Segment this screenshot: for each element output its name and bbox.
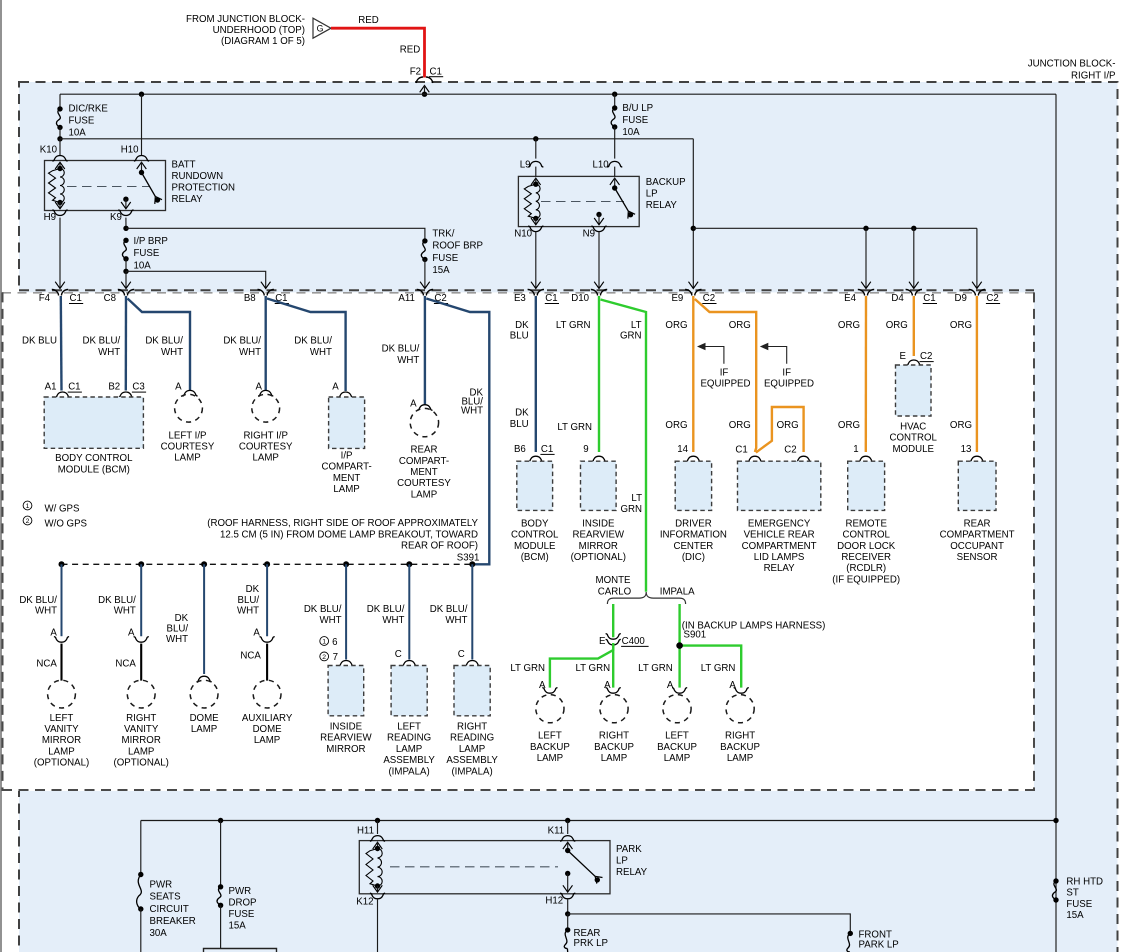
wire N10 down to E3 (535, 232, 537, 288)
wire NCA right vanity (140, 644, 142, 681)
junction dot H12 branch (565, 911, 570, 916)
junction dot bottom bus / pwr drop fuse (218, 818, 223, 823)
svg-text:14: 14 (677, 444, 688, 455)
svg-text:BLU/: BLU/ (167, 624, 189, 635)
wire ORG E9 branch to emergency relay C1 (695, 299, 756, 452)
relay internal dashed line (67, 186, 150, 188)
wire DK BLU E3 to BCM B6 (535, 296, 537, 452)
svg-text:BODY: BODY (521, 518, 549, 529)
svg-text:G: G (317, 24, 324, 34)
svg-text:DOME: DOME (253, 724, 283, 735)
svg-text:I/P: I/P (341, 450, 353, 461)
svg-text:RED: RED (400, 44, 420, 55)
fuse PWR DROP 15A (218, 884, 223, 889)
svg-text:RIGHT: RIGHT (725, 731, 755, 742)
svg-text:DOME: DOME (190, 713, 220, 724)
svg-text:S901: S901 (684, 630, 707, 641)
svg-text:BLU: BLU (510, 419, 529, 430)
junction dot bottom bus / RH HTD ST drop (1053, 818, 1058, 823)
svg-text:WHT: WHT (445, 615, 467, 626)
svg-text:DRIVER: DRIVER (675, 518, 712, 529)
connector D9 at junction block border (969, 289, 985, 295)
svg-text:INFORMATION: INFORMATION (660, 530, 727, 541)
connector E3 at junction block border (528, 289, 544, 295)
svg-text:WHT: WHT (161, 347, 183, 358)
wire LT GRN impala leg to S901 (678, 604, 680, 646)
svg-text:RELAY: RELAY (616, 867, 648, 878)
svg-text:C400: C400 (622, 636, 646, 647)
pin arc left reading lamp (402, 660, 417, 666)
splice junction dot x=409.3 (406, 561, 412, 567)
svg-text:LAMP: LAMP (537, 753, 563, 764)
inside rearview mirror box (328, 666, 364, 716)
svg-text:CARLO: CARLO (598, 586, 632, 597)
dome lamp (190, 680, 218, 708)
svg-text:BATT: BATT (172, 159, 196, 170)
svg-text:OCCUPANT: OCCUPANT (950, 541, 1004, 552)
svg-text:MIRROR: MIRROR (42, 735, 81, 746)
splice junction dot x=141.2 (138, 561, 144, 567)
svg-text:MIRROR: MIRROR (122, 735, 161, 746)
svg-text:C2: C2 (784, 444, 796, 455)
junction dot I/P fuse / B8 branch (123, 269, 128, 274)
svg-text:(BCM): (BCM) (521, 552, 549, 563)
wire ORG jumper C1 to C2 (756, 407, 804, 453)
svg-text:WHT: WHT (397, 355, 419, 366)
wire LT GRN below C400 to right backup lamp (612, 643, 614, 688)
svg-text:E4: E4 (844, 293, 856, 304)
svg-text:6: 6 (332, 637, 337, 648)
wire LT GRN S901 to right backup lamp (impala) (680, 646, 742, 688)
svg-text:LEFT: LEFT (50, 713, 74, 724)
svg-text:C1: C1 (68, 382, 80, 393)
svg-text:1: 1 (26, 503, 30, 510)
svg-text:WHT: WHT (114, 605, 136, 616)
pin arc backup lamp 3 (672, 688, 687, 694)
wire REAR PRK LP down (567, 914, 569, 930)
junction dot DIC fuse / bus2 (57, 136, 62, 141)
svg-text:IMPALA: IMPALA (660, 586, 695, 597)
white box left dashed border (2, 292, 4, 791)
wire H9 down to F4 (59, 218, 61, 288)
svg-text:REARVIEW: REARVIEW (573, 530, 625, 541)
svg-text:PWR: PWR (229, 886, 252, 897)
svg-text:REMOTE: REMOTE (845, 518, 887, 529)
wire ORG E9 to DIC pin 14 (692, 296, 694, 452)
fuse RH HTD ST 15A (1053, 878, 1058, 883)
park relay coil H11-K12 (373, 842, 383, 849)
svg-text:D9: D9 (955, 293, 967, 304)
svg-text:COURTESY: COURTESY (239, 442, 293, 453)
wire C8 down (125, 271, 127, 287)
wire K9 down to junction (125, 218, 127, 229)
svg-text:BACKUP: BACKUP (646, 177, 686, 188)
svg-text:MIRROR: MIRROR (579, 541, 618, 552)
svg-text:ORG: ORG (729, 320, 751, 331)
pin K11 connector arc (560, 836, 575, 842)
pin H12 connector arc (560, 893, 575, 899)
svg-text:N10: N10 (514, 228, 532, 239)
svg-text:ORG: ORG (729, 420, 751, 431)
off-page triangle connector G (313, 18, 331, 38)
junction dot bottom bus / K11 (565, 818, 570, 823)
right i/p courtesy lamp (252, 394, 280, 422)
pin arc backup lamp 1 (542, 688, 557, 694)
svg-text:C1: C1 (541, 444, 553, 455)
connector D4 at junction block border (906, 289, 922, 295)
svg-text:BACKUP: BACKUP (594, 742, 634, 753)
connector F2/C1 at junction block top border (416, 77, 432, 83)
svg-text:ORG: ORG (665, 320, 687, 331)
wire L9 from bus2 down (535, 139, 537, 159)
svg-text:RELAY: RELAY (646, 200, 678, 211)
svg-text:WHT: WHT (237, 605, 259, 616)
wire DK BLU F4 to BCM A1 (60, 296, 63, 391)
svg-text:W/O GPS: W/O GPS (45, 518, 88, 529)
relay pin K9 with arrow (123, 197, 128, 202)
svg-text:LAMP: LAMP (253, 453, 279, 464)
svg-text:L9: L9 (520, 159, 531, 170)
svg-text:DK: DK (246, 584, 260, 595)
right backup lamp 4 (726, 695, 754, 723)
svg-text:EQUIPPED: EQUIPPED (764, 378, 814, 389)
pin arc backup lamp 2 (606, 688, 621, 694)
driver information center (DIC) box (675, 461, 711, 510)
svg-text:GRN: GRN (620, 331, 642, 342)
pin arc right vanity lamp (134, 637, 149, 643)
svg-text:B/U LP: B/U LP (622, 103, 653, 114)
bottom bus wire (141, 820, 1056, 822)
svg-text:LAMP: LAMP (601, 753, 627, 764)
connector D10 at junction block border (591, 289, 607, 295)
right vanity mirror lamp (127, 680, 155, 708)
svg-text:NCA: NCA (115, 659, 136, 670)
pin arc backup lamp 4 (734, 688, 749, 694)
body control module (BCM) box right (517, 461, 553, 510)
svg-text:EQUIPPED: EQUIPPED (700, 378, 750, 389)
connector C400 inline (606, 634, 621, 640)
splice junction dot x=61.5 (59, 561, 65, 567)
svg-text:HVAC: HVAC (900, 421, 926, 432)
svg-text:FUSE: FUSE (134, 248, 160, 259)
svg-text:RIGHT: RIGHT (599, 731, 629, 742)
svg-text:K12: K12 (356, 896, 373, 907)
arrow up into junction block at F2 (420, 86, 430, 93)
svg-text:A: A (50, 628, 57, 639)
svg-text:ORG: ORG (838, 320, 860, 331)
svg-text:READING: READING (450, 733, 494, 744)
svg-text:LAMP: LAMP (48, 746, 74, 757)
svg-text:(OPTIONAL): (OPTIONAL) (571, 552, 626, 563)
svg-text:SENSOR: SENSOR (957, 552, 998, 563)
emergency vehicle rear compartment lid lamps relay box (738, 461, 821, 510)
svg-text:LT GRN: LT GRN (510, 663, 545, 674)
svg-text:NCA: NCA (240, 651, 261, 662)
junction dot bottom bus / H11 (375, 818, 380, 823)
wire branch to front park lp (568, 914, 851, 934)
svg-text:MENT: MENT (333, 473, 361, 484)
svg-text:FUSE: FUSE (1066, 899, 1092, 910)
pin A1 connector arc (55, 392, 70, 398)
svg-text:COMPART-: COMPART- (399, 456, 449, 467)
park relay pin H12 with arrow (565, 871, 570, 876)
arrow into E3 (531, 282, 541, 289)
wire DK BLU/WHT C8 to BCM B2 (125, 296, 128, 391)
svg-text:VEHICLE REAR: VEHICLE REAR (744, 530, 815, 541)
svg-text:RIGHT I/P: RIGHT I/P (1071, 70, 1116, 81)
pin C2 connector arc (796, 456, 811, 462)
wire N9 down to D10 (598, 232, 600, 288)
wire DK BLU/WHT to auxiliary dome lamp (266, 564, 268, 636)
svg-text:15A: 15A (432, 265, 450, 276)
svg-text:COURTESY: COURTESY (397, 478, 451, 489)
pin 9 connector arc (591, 456, 606, 462)
if equipped callout 1 (697, 343, 706, 350)
svg-text:D4: D4 (891, 293, 904, 304)
arrow into C8 (121, 282, 131, 289)
backup relay internal dashed line (541, 201, 624, 203)
pin K10 connector arc (52, 155, 67, 161)
backup lp relay box (518, 176, 639, 226)
svg-text:LAMP: LAMP (459, 744, 485, 755)
circuit breaker PWR SEATS 30A (138, 872, 143, 877)
svg-text:FROM JUNCTION BLOCK-: FROM JUNCTION BLOCK- (186, 14, 305, 25)
svg-text:BACKUP: BACKUP (657, 742, 697, 753)
svg-text:(OPTIONAL): (OPTIONAL) (34, 758, 89, 769)
svg-text:BACKUP: BACKUP (530, 742, 570, 753)
splice junction dot x=204.1 (201, 561, 207, 567)
svg-text:2: 2 (322, 654, 326, 661)
svg-text:LAMP: LAMP (411, 489, 437, 500)
svg-text:ORG: ORG (838, 420, 860, 431)
svg-text:(IMPALA): (IMPALA) (388, 766, 429, 777)
wire LT GRN monte carlo leg to C400 (612, 604, 614, 637)
backup relay coil L9-N10 (531, 178, 541, 185)
arrow into D10 (594, 282, 604, 289)
wire K12 down (377, 900, 379, 952)
svg-text:INSIDE: INSIDE (582, 518, 615, 529)
rear compartment courtesy lamp (410, 408, 438, 436)
white interior cut-out box (2, 292, 1034, 791)
svg-text:ORG: ORG (777, 420, 799, 431)
svg-text:REAR: REAR (964, 518, 991, 529)
svg-text:K10: K10 (40, 145, 58, 156)
if equipped callout 2 (760, 343, 769, 350)
arrow into D4 (909, 282, 919, 289)
svg-text:A: A (256, 382, 263, 393)
left reading lamp assembly box (391, 666, 427, 716)
rear compartment occupant sensor box (958, 461, 996, 510)
wire K10 from bus2 junction down (59, 139, 61, 155)
pin 1 connector arc (858, 456, 873, 462)
pin arc i/p compartment lamp (338, 392, 353, 398)
wire LT GRN S901 down to left backup lamp (impala) (678, 646, 680, 688)
svg-text:LP: LP (616, 855, 628, 866)
arrow into D9 (972, 282, 982, 289)
svg-text:BODY CONTROL: BODY CONTROL (55, 453, 133, 464)
wire LT GRN D10 branch down to monte/impala split (601, 300, 647, 592)
svg-text:H10: H10 (121, 145, 139, 156)
partial component box at bottom edge (204, 949, 277, 952)
wire RED from G to F2/C1 (331, 28, 425, 77)
white box top dashed border (light) (2, 292, 1034, 294)
svg-text:COMPARTMENT: COMPARTMENT (742, 541, 817, 552)
fuse B/U LP 10A drop from top bus (612, 92, 617, 97)
park relay internal dashed line (390, 866, 558, 868)
svg-text:UNDERHOOD (TOP): UNDERHOOD (TOP) (213, 25, 305, 36)
svg-text:BLU/: BLU/ (238, 595, 260, 606)
svg-text:COMPARTMENT: COMPARTMENT (940, 530, 1015, 541)
svg-text:TRK/: TRK/ (432, 228, 454, 239)
left i/p courtesy lamp (175, 394, 203, 422)
wire LT GRN D10 to inside rearview mirror (598, 296, 600, 452)
svg-text:(DIC): (DIC) (682, 552, 705, 563)
svg-text:C8: C8 (104, 293, 116, 304)
svg-text:FUSE: FUSE (432, 253, 458, 264)
svg-text:DK BLU/: DK BLU/ (304, 604, 342, 615)
svg-text:I/P BRP: I/P BRP (134, 236, 168, 247)
svg-text:DK BLU/: DK BLU/ (430, 604, 468, 615)
svg-text:LAMP: LAMP (396, 744, 422, 755)
wire branch to B8 (126, 271, 266, 287)
svg-text:DK BLU/: DK BLU/ (145, 335, 183, 346)
junction dot S901 (676, 642, 683, 649)
svg-text:C: C (458, 649, 465, 660)
pin K12 connector arc (370, 893, 385, 899)
right reading lamp assembly box (454, 666, 490, 716)
svg-text:RIGHT: RIGHT (457, 722, 487, 733)
svg-text:13: 13 (961, 444, 972, 455)
pin arc right reading lamp (465, 660, 480, 666)
left backup lamp 3 (663, 695, 691, 723)
junction dot bus4/E4 (863, 226, 868, 231)
wire H11 drop (377, 821, 379, 835)
svg-text:S391: S391 (457, 553, 480, 564)
pin B2 connector arc (118, 392, 133, 398)
svg-text:PARK: PARK (616, 844, 642, 855)
pin 14 connector arc (686, 456, 701, 462)
svg-text:K9: K9 (110, 212, 122, 223)
pin H11 connector arc (370, 836, 385, 842)
svg-text:LAMP: LAMP (727, 753, 753, 764)
relay switch H10 side (137, 162, 147, 169)
svg-text:N9: N9 (583, 228, 595, 239)
right backup lamp 2 (600, 695, 628, 723)
svg-text:(IF EQUIPPED): (IF EQUIPPED) (832, 574, 900, 585)
svg-text:VANITY: VANITY (124, 724, 159, 735)
svg-text:REAR OF ROOF): REAR OF ROOF) (401, 541, 478, 552)
svg-text:DK BLU/: DK BLU/ (367, 604, 405, 615)
wire from top bus down to DIC/RKE fuse (59, 94, 61, 109)
white box bottom dashed border (2, 789, 1034, 791)
pin B6 connector arc (528, 456, 543, 462)
svg-text:DK: DK (175, 613, 189, 624)
svg-text:RIGHT: RIGHT (126, 713, 156, 724)
svg-text:ROOF BRP: ROOF BRP (432, 241, 483, 252)
svg-text:LT GRN: LT GRN (575, 663, 610, 674)
svg-text:D10: D10 (571, 293, 589, 304)
pin N10 connector arc (528, 226, 543, 232)
arrow into E9 (689, 282, 699, 289)
svg-text:SEATS: SEATS (150, 892, 182, 903)
wire ORG E4 to RCDLR pin 1 (865, 296, 868, 452)
svg-text:RIGHT I/P: RIGHT I/P (243, 431, 288, 442)
fuse TRK/ROOF BRP 15A (422, 238, 427, 243)
svg-text:COURTESY: COURTESY (161, 442, 215, 453)
svg-text:MODULE: MODULE (892, 444, 934, 455)
pin L10 connector arc (607, 161, 622, 167)
junction dot bus2/L9 branch (533, 136, 538, 141)
wire DK BLU/WHT to dome lamp (203, 564, 205, 674)
svg-text:VANITY: VANITY (44, 724, 79, 735)
svg-text:E9: E9 (671, 293, 683, 304)
pin H10 connector arc (134, 155, 149, 161)
pin arc left vanity lamp (54, 637, 69, 643)
svg-text:MIRROR: MIRROR (326, 744, 365, 755)
svg-text:DIC/RKE: DIC/RKE (69, 103, 109, 114)
svg-text:MONTE: MONTE (596, 575, 632, 586)
svg-text:LAMP: LAMP (333, 484, 359, 495)
svg-text:C2: C2 (920, 351, 932, 362)
svg-text:E: E (900, 351, 907, 362)
svg-text:FUSE: FUSE (69, 115, 95, 126)
wire DK BLU/WHT A11 branch down to S391 (426, 299, 489, 565)
svg-text:RELAY: RELAY (764, 563, 796, 574)
svg-text:K11: K11 (548, 826, 565, 837)
wire DK BLU/WHT to left vanity mirror lamp (61, 564, 63, 636)
svg-text:(OPTIONAL): (OPTIONAL) (113, 758, 168, 769)
wire fuse to B8-branch junction (125, 259, 127, 272)
wire below pwr drop fuse (220, 905, 222, 948)
svg-text:RUNDOWN: RUNDOWN (172, 171, 224, 182)
wire DK BLU/WHT to left reading lamp (408, 564, 410, 659)
svg-text:BACKUP: BACKUP (720, 742, 760, 753)
connector E9 at junction block border (685, 289, 701, 295)
svg-text:ASSEMBLY: ASSEMBLY (446, 755, 498, 766)
legend W/O GPS (23, 516, 32, 525)
svg-text:WHT: WHT (239, 347, 261, 358)
wire D4 drop (913, 228, 915, 287)
svg-text:10A: 10A (134, 260, 152, 271)
svg-text:INSIDE: INSIDE (330, 722, 363, 733)
svg-text:DK BLU/: DK BLU/ (294, 335, 332, 346)
svg-text:LAMP: LAMP (664, 753, 690, 764)
svg-text:(RCDLR): (RCDLR) (846, 563, 886, 574)
svg-text:C1: C1 (735, 444, 747, 455)
svg-text:LEFT: LEFT (665, 731, 689, 742)
label pin 7 w/o gps (320, 652, 329, 661)
svg-text:A: A (332, 382, 339, 393)
svg-text:(ROOF HARNESS, RIGHT SIDE OF R: (ROOF HARNESS, RIGHT SIDE OF ROOF APPROX… (207, 518, 478, 529)
svg-text:1: 1 (322, 639, 326, 646)
splice junction dot x=267.1 (264, 561, 270, 567)
wire DK BLU/WHT to right reading lamp (471, 564, 473, 659)
svg-text:DK: DK (515, 408, 529, 419)
svg-text:B6: B6 (514, 444, 526, 455)
svg-text:10A: 10A (69, 127, 87, 138)
wire to pwr seats circuit breaker (140, 821, 142, 875)
wire NCA left vanity (60, 644, 62, 681)
wire right drop from top bus to bottom (RH HTD ST feed) (1055, 94, 1057, 952)
svg-text:(IMPALA): (IMPALA) (451, 766, 492, 777)
svg-text:LT GRN: LT GRN (556, 320, 591, 331)
wire K11 drop (567, 821, 569, 835)
svg-text:2: 2 (26, 518, 30, 525)
fuse I/P BRP 10A (123, 238, 128, 243)
fuse DIC/RKE 10A (57, 106, 62, 111)
svg-text:COMPART-: COMPART- (321, 462, 371, 473)
svg-text:DK BLU/: DK BLU/ (223, 335, 261, 346)
